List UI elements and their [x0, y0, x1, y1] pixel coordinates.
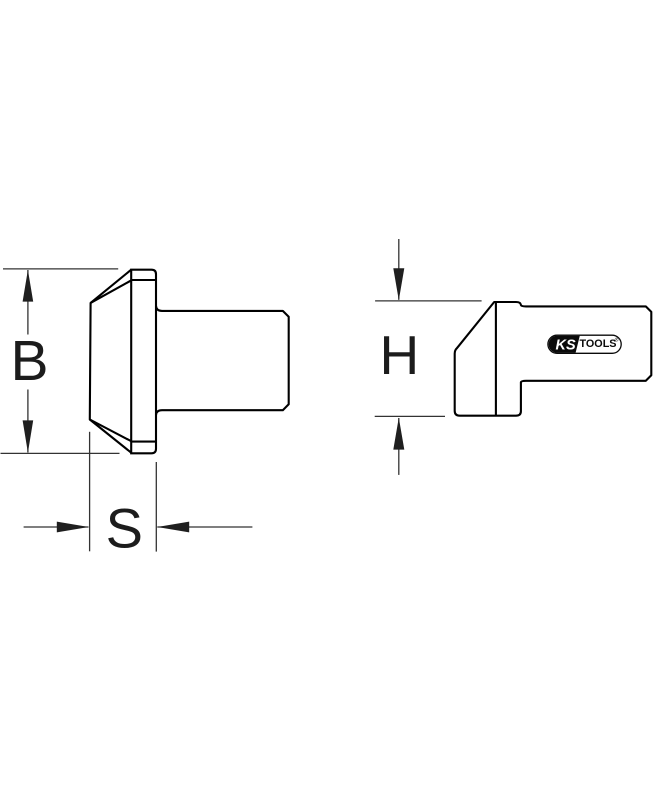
left view: shaft	[156, 306, 289, 415]
dimension line B upper segment	[27, 270, 29, 335]
svg-text:KS: KS	[556, 338, 576, 354]
left view: cone silhouette	[90, 270, 131, 453]
extension line top (dimension H)	[375, 300, 482, 302]
arrowhead S left-pointing	[157, 522, 189, 533]
left view: cone inner slant bottom	[90, 420, 132, 442]
left view: flange disc rim	[131, 270, 156, 454]
dimension line B lower segment	[27, 390, 29, 453]
extension line left (dimension S)	[89, 432, 91, 552]
svg-text:B: B	[11, 329, 49, 393]
dimension line H lower segment	[398, 418, 400, 475]
left view: cone inner slant top	[91, 280, 132, 303]
dimension line S left segment	[24, 526, 89, 528]
arrowhead B down	[23, 420, 34, 452]
left view: disc chamfer line bottom	[131, 441, 156, 443]
svg-text:H: H	[380, 324, 420, 386]
dimension line S right segment	[157, 526, 252, 528]
extension line bottom (dimension H)	[375, 415, 445, 417]
svg-text:S: S	[106, 497, 143, 560]
extension line top (dimension B)	[3, 268, 118, 270]
KS Tools logo: outer pill	[548, 335, 621, 353]
extension line right (dimension S)	[155, 462, 157, 552]
KS Tools logo: black left field	[549, 336, 580, 353]
extension line bottom (dimension B)	[1, 452, 120, 454]
arrowhead S right-pointing	[57, 522, 89, 533]
left view: disc chamfer line top	[131, 279, 156, 281]
svg-text:®: ®	[615, 337, 619, 344]
dimension line H upper segment	[398, 239, 400, 300]
arrowhead H up	[393, 418, 404, 450]
right view: disc rim left edge	[495, 302, 497, 416]
svg-text:TOOLS: TOOLS	[580, 338, 617, 350]
arrowhead H down	[393, 268, 404, 300]
arrowhead B up	[23, 270, 34, 302]
right view: body outline	[455, 302, 652, 416]
